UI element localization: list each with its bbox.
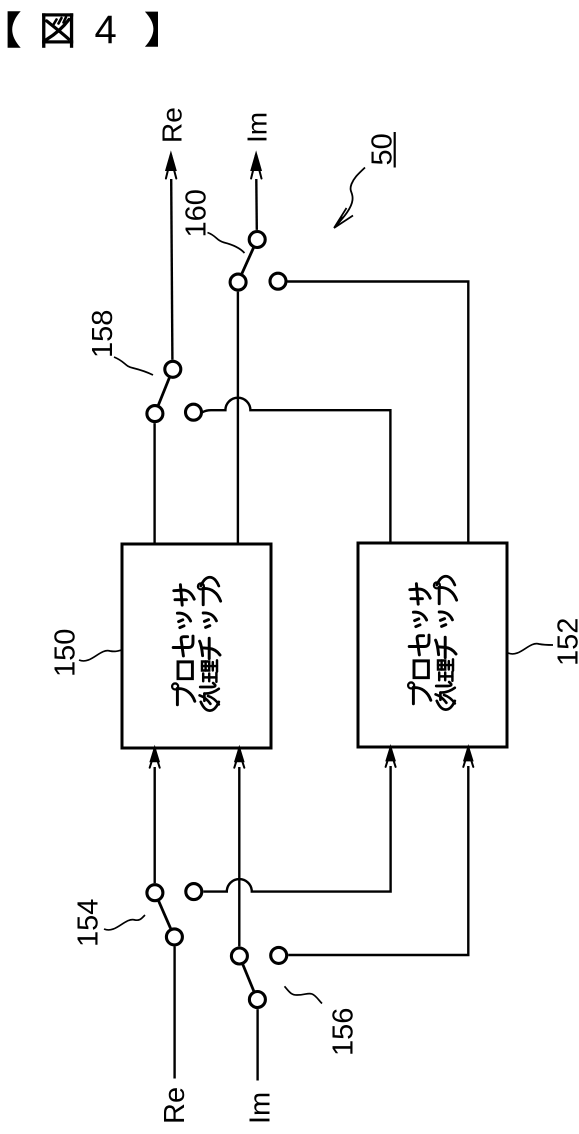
wire U150 output B to switch 160 throw a bbox=[237, 292, 239, 544]
reference label 50 (underlined) bbox=[367, 132, 399, 168]
arrowhead into U150 input B bbox=[234, 748, 244, 768]
wire switch 156 throw b to U152 input B bbox=[288, 766, 468, 955]
switch S154 (common pole + two throw contacts + blade) bbox=[147, 884, 202, 945]
svg-text:Im: Im bbox=[245, 1092, 277, 1124]
squiggly leader arrow for label 50 bbox=[336, 168, 366, 227]
svg-text:150: 150 bbox=[50, 629, 82, 677]
switch S160 (common pole + two throw contacts + blade) bbox=[230, 232, 286, 291]
svg-text:152: 152 bbox=[553, 618, 579, 666]
svg-text:158: 158 bbox=[87, 310, 119, 358]
wire Re input to switch 154 common bbox=[173, 946, 175, 1078]
processor chip box U152 プロセッサ（処理チップ） bbox=[358, 543, 507, 747]
leader line for label 158 bbox=[114, 357, 153, 375]
arrowhead into U152 input A bbox=[386, 747, 396, 767]
svg-text:154: 154 bbox=[73, 899, 105, 947]
wire Im output from switch 160 bbox=[255, 179, 258, 230]
svg-text:Re: Re bbox=[159, 1087, 191, 1124]
wire switch 154 throw b to U152 input A (with crossover hop) bbox=[203, 766, 390, 892]
arrowhead into U150 input A bbox=[150, 748, 160, 768]
wire switch 156 throw a to U150 input B bbox=[238, 767, 240, 946]
header bracket 】 bbox=[145, 12, 158, 47]
wire U152 output A to switch 158 throw b (with crossover hop) bbox=[203, 398, 391, 543]
svg-text:Im: Im bbox=[242, 112, 273, 143]
svg-text:160: 160 bbox=[181, 189, 213, 237]
svg-text:156: 156 bbox=[327, 1008, 359, 1056]
leader line for label 152 bbox=[508, 644, 553, 654]
svg-text:4: 4 bbox=[95, 8, 117, 52]
header bracket 【 bbox=[8, 11, 21, 48]
switch S156 (common pole + two throw contacts + blade) bbox=[231, 947, 286, 1007]
header kanji 図 bbox=[42, 13, 73, 48]
wire Re output from switch 158 bbox=[171, 179, 172, 360]
switch S158 (common pole + two throw contacts + blade) bbox=[147, 361, 202, 421]
leader line for label 156 bbox=[285, 986, 323, 1003]
processor chip box U150 プロセッサ（処理チップ） bbox=[122, 544, 271, 748]
arrowhead Re output bbox=[166, 154, 176, 179]
wire U152 output B to switch 160 throw b bbox=[288, 282, 469, 544]
arrowhead of label 50 leader bbox=[334, 208, 353, 228]
arrowhead Im output bbox=[251, 154, 261, 179]
wire Im input to switch 156 common bbox=[256, 1009, 258, 1080]
leader line for label 150 bbox=[79, 650, 122, 661]
leader line for label 160 bbox=[208, 233, 245, 254]
leader line for label 154 bbox=[104, 915, 145, 930]
arrowhead into U152 input B bbox=[463, 747, 473, 767]
wire U150 output A to switch 158 throw a bbox=[153, 423, 155, 543]
wire switch 154 throw a to U150 input A bbox=[153, 767, 155, 883]
svg-text:Re: Re bbox=[156, 107, 187, 143]
